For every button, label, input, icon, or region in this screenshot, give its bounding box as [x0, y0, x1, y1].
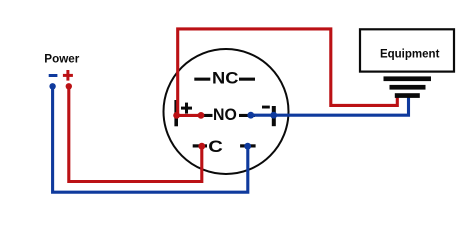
svg-text:C: C	[208, 138, 223, 156]
node: Power + terminal	[66, 83, 72, 89]
pin dash C right	[240, 144, 256, 147]
pin dash NO right	[239, 114, 255, 117]
LED anode leg (+)	[174, 100, 178, 126]
pin dash NO left	[198, 114, 213, 117]
equipment ground bar 3	[395, 93, 420, 98]
svg-text:Power: Power	[44, 51, 79, 65]
label - (LED)	[262, 106, 270, 109]
wire: blue from NO right pin through LED- leg to equipment	[250, 97, 409, 115]
node: junction blue wire / C right pin	[244, 143, 251, 150]
wire: red from Power + down across bottom up to C pin	[69, 86, 202, 181]
equipment ground bar 1	[384, 76, 432, 81]
svg-text:NO: NO	[213, 106, 237, 124]
node: junction red wire / C pin	[198, 143, 205, 150]
equipment box	[360, 29, 454, 71]
switch body (circle) U1	[164, 49, 289, 174]
label - (power negative)	[49, 74, 58, 77]
wire: red from LED+/NO junction up across top and down to equipment	[178, 29, 398, 116]
wire: red jumper from LED+ junction to NO pin	[178, 114, 202, 117]
node: junction red wire / LED+ leg	[173, 112, 180, 119]
node: junction blue wire / LED- leg	[270, 112, 277, 119]
LED cathode leg (-)	[272, 106, 276, 126]
svg-text:Equipment: Equipment	[380, 46, 440, 60]
pin dash NC right	[239, 78, 255, 81]
node: junction red wire / NO pin	[198, 112, 205, 119]
label + (power positive)	[63, 70, 73, 81]
equipment ground bar 2	[390, 85, 426, 90]
label + (LED)	[181, 103, 192, 114]
wire: blue from Power - down across bottom up to C right pin	[53, 86, 248, 192]
pin dash C left	[193, 144, 207, 147]
svg-text:NC: NC	[212, 70, 238, 88]
node: junction blue wire / NO right pin	[247, 112, 254, 119]
node: Power - terminal	[49, 83, 55, 89]
pin dash NC left	[194, 78, 210, 81]
